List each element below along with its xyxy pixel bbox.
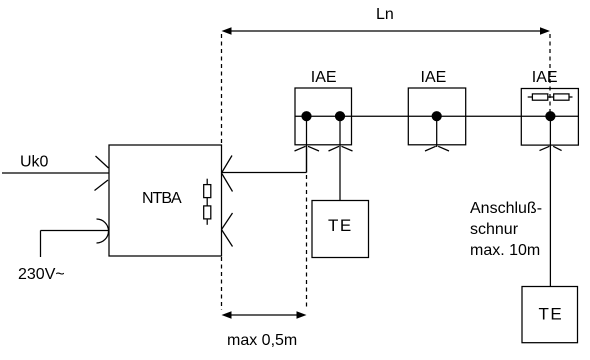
wire IAE1 right dot down to TE xyxy=(339,116,341,200)
IAE3 box xyxy=(521,89,578,146)
svg-text:230V~: 230V~ xyxy=(18,266,65,283)
wire IAE3 dot down to TE2 xyxy=(549,116,551,286)
wire IAE2 dot down xyxy=(436,116,438,147)
wire NTBA to IAE1 vertical riser xyxy=(306,145,308,173)
resistor right IAE3 xyxy=(554,94,569,100)
terminating resistor R (lower) xyxy=(204,206,211,219)
IAE2 box xyxy=(408,88,465,145)
resistor lead left IAE3 xyxy=(528,96,533,98)
IAE1 box xyxy=(295,88,352,145)
plug chevron IAE1 right xyxy=(329,146,353,151)
TE2 box xyxy=(522,287,578,343)
junction dot IAE1 right xyxy=(335,111,345,121)
label Anschlussschnur xyxy=(470,200,542,259)
dimension line Ln xyxy=(222,27,551,35)
wire between resistors xyxy=(206,198,208,206)
extension line (dashed) at IAE3 xyxy=(549,34,551,112)
svg-text:schnur: schnur xyxy=(470,221,519,238)
plug chevron IAE2 xyxy=(425,146,449,151)
resistor left IAE3 xyxy=(532,94,547,100)
wire 230V horizontal xyxy=(41,230,109,232)
svg-text:NTBA: NTBA xyxy=(142,190,182,207)
svg-text:TE: TE xyxy=(539,305,564,324)
junction dot IAE2 xyxy=(432,111,442,121)
terminating resistor R (upper) xyxy=(204,185,211,198)
TE1 box xyxy=(312,201,369,258)
plug chevron IAE1 left xyxy=(295,146,320,151)
terminating resistor lead (bottom) xyxy=(206,219,208,225)
plug chevron NTBA right upper xyxy=(222,156,233,192)
svg-text:max. 10m: max. 10m xyxy=(470,242,540,259)
extension line (dashed) at IAE1 left plug xyxy=(306,175,308,310)
wire between IAE3 resistors xyxy=(548,96,554,98)
plug chevron NTBA right lower xyxy=(222,213,233,247)
svg-text:Ln: Ln xyxy=(376,6,394,23)
plug chevron Uk0 at NTBA left xyxy=(95,156,109,191)
svg-text:Uk0: Uk0 xyxy=(20,154,49,171)
svg-text:Anschluß-: Anschluß- xyxy=(470,200,542,217)
svg-text:IAE: IAE xyxy=(421,69,447,86)
S0 bus wire through IAE boxes xyxy=(295,115,578,117)
extension line (dashed) at NTBA right edge, upper xyxy=(221,34,223,144)
svg-text:IAE: IAE xyxy=(311,69,337,86)
svg-text:TE: TE xyxy=(328,216,353,235)
wire 230V vertical xyxy=(40,231,42,258)
junction dot IAE3 xyxy=(545,111,555,121)
plug chevron IAE3 xyxy=(540,146,562,150)
NTBA box xyxy=(109,145,222,256)
junction dot IAE1 left xyxy=(301,111,311,121)
terminating resistor lead (top) xyxy=(206,179,208,185)
resistor lead right IAE3 xyxy=(569,96,573,98)
extension line (dashed) at NTBA right edge, lower xyxy=(221,257,223,310)
wire Uk0 xyxy=(2,172,109,174)
svg-text:IAE: IAE xyxy=(532,69,558,86)
wire IAE1 left dot down xyxy=(306,116,308,172)
svg-text:max 0,5m: max 0,5m xyxy=(227,332,297,349)
dimension line max 0,5m xyxy=(222,311,307,319)
wire NTBA to IAE1 horizontal xyxy=(222,172,307,174)
socket arc 230V at NTBA left xyxy=(97,219,109,243)
